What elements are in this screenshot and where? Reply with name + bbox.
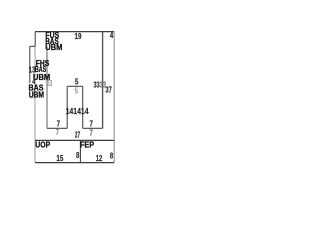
svg-text:4: 4 xyxy=(110,31,114,40)
svg-text:12: 12 xyxy=(96,154,103,163)
svg-text:7: 7 xyxy=(57,119,61,128)
wire jog y=97.8 faint xyxy=(30,97,35,99)
wire top edge xyxy=(35,31,114,33)
svg-text:UBM: UBM xyxy=(29,91,45,100)
wire inner vertical x=102.6 xyxy=(102,32,104,129)
svg-text:5: 5 xyxy=(75,86,79,95)
wire chimney left x=67.2 xyxy=(66,86,68,128)
wire outer left wall x=29.8 xyxy=(29,46,31,83)
wire porch top y=140.4 xyxy=(35,139,114,141)
svg-text:5: 5 xyxy=(75,78,79,87)
svg-text:141414: 141414 xyxy=(66,107,89,116)
svg-text:UBM: UBM xyxy=(45,43,62,52)
svg-text:7: 7 xyxy=(90,119,94,128)
svg-text:33: 33 xyxy=(47,79,53,88)
svg-text:7: 7 xyxy=(56,128,60,137)
wire porch divider x=80.4 xyxy=(79,140,81,162)
wire right edge xyxy=(113,32,115,163)
wire inner wall x=47 xyxy=(46,46,48,128)
svg-text:7: 7 xyxy=(90,129,94,138)
wire chimney top y=86.3 xyxy=(67,85,83,87)
wire chimney right x=82.7 xyxy=(82,86,84,128)
wire notch bottom left y=128.3 xyxy=(47,127,67,129)
svg-text:FEP: FEP xyxy=(80,140,95,149)
svg-text:8: 8 xyxy=(76,151,80,160)
wire left wall x=35 upper dark xyxy=(34,32,36,47)
wire bottom edge y=162.6 xyxy=(35,162,114,164)
wire notch bottom right y=128.3 xyxy=(83,127,103,129)
svg-text:27: 27 xyxy=(75,130,81,139)
wire jog y=46.4 xyxy=(30,45,35,47)
wire left wall x=35 lower grey xyxy=(34,46,36,162)
svg-text:8: 8 xyxy=(110,152,114,161)
svg-text:37: 37 xyxy=(105,85,112,94)
svg-text:UOP: UOP xyxy=(35,140,50,149)
svg-text:19: 19 xyxy=(75,32,82,41)
svg-text:15: 15 xyxy=(56,154,63,163)
